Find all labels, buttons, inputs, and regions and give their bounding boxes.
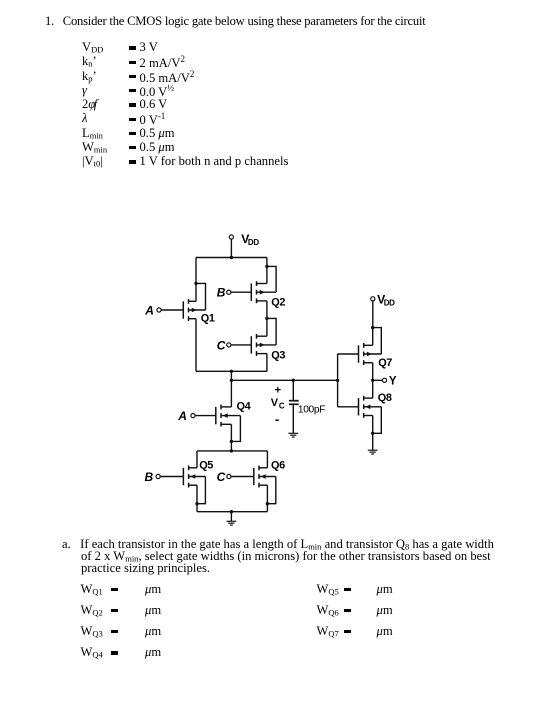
wire: bottom rail bbox=[197, 510, 267, 513]
svg-text:DD: DD bbox=[384, 299, 395, 308]
transistor Q2 (PMOS) bbox=[251, 265, 276, 304]
svg-text:Y: Y bbox=[389, 376, 397, 388]
wire: Q7 drain to output node Y bbox=[371, 363, 374, 382]
wire: Q8 gate bbox=[338, 406, 359, 408]
label VC bbox=[271, 397, 285, 411]
wire: rail to Q6 drain bbox=[266, 451, 268, 468]
transistor Q1 (PMOS) bbox=[183, 282, 205, 321]
ground (capacitor) bbox=[288, 433, 298, 437]
wire: Q7 gate bbox=[338, 353, 359, 355]
question a paragraph bbox=[62, 537, 494, 552]
power terminal VDD (right, inverter) bbox=[371, 297, 375, 328]
label VDD (right) bbox=[377, 292, 395, 307]
wire: Q2 drain to Q3 source bbox=[266, 301, 268, 319]
ground (pull-down network) bbox=[227, 521, 237, 525]
svg-text:DD: DD bbox=[248, 238, 259, 247]
wire: rail to ground bbox=[230, 512, 232, 521]
svg-text:+: + bbox=[275, 385, 281, 397]
svg-text:B: B bbox=[217, 286, 226, 300]
input terminal B (Q5 gate) bbox=[156, 474, 183, 478]
wire: capacitor to ground bbox=[292, 405, 294, 433]
svg-text:A: A bbox=[177, 409, 186, 423]
wire: node Y to Q8 drain bbox=[372, 380, 374, 398]
input terminal B (Q2 gate) bbox=[227, 290, 252, 294]
svg-text:Q3: Q3 bbox=[271, 349, 285, 361]
svg-text:C: C bbox=[217, 470, 226, 484]
wire: Q8 source to ground bbox=[372, 433, 374, 449]
input terminal C (Q6 gate) bbox=[227, 474, 254, 478]
node X wire (to cap and inverter input) bbox=[230, 379, 340, 382]
wire: node X to capacitor bbox=[292, 380, 294, 400]
wire: VDD top rail bbox=[196, 256, 267, 259]
transistor Q7 (PMOS) bbox=[359, 326, 382, 365]
svg-text:C: C bbox=[217, 338, 226, 352]
transistor Q4 (NMOS) bbox=[216, 405, 241, 443]
wire: Q6 source down bbox=[266, 504, 268, 512]
svg-text:Q2: Q2 bbox=[271, 297, 285, 309]
svg-text:-: - bbox=[275, 411, 279, 426]
wire: rail to Q1 source bbox=[195, 258, 197, 284]
label VDD (top) bbox=[241, 232, 259, 247]
svg-text:100pF: 100pF bbox=[298, 405, 325, 416]
transistor Q6 (NMOS) bbox=[254, 466, 276, 506]
wire: Q5 source down bbox=[196, 504, 198, 512]
wire: Q1 drain down bbox=[195, 319, 197, 372]
transistor Q5 (NMOS) bbox=[183, 466, 205, 506]
wire: pull-up output rail bbox=[196, 370, 267, 373]
wire: rail to Q5 drain bbox=[196, 451, 198, 468]
svg-text:V: V bbox=[271, 397, 279, 409]
svg-text:Q6: Q6 bbox=[271, 460, 285, 472]
capacitor C1 100pF bbox=[289, 401, 299, 405]
wire: Q4 source to parallel rail bbox=[230, 441, 233, 452]
svg-text:Q5: Q5 bbox=[199, 460, 213, 472]
svg-text:B: B bbox=[145, 470, 154, 484]
input terminal C (Q3 gate) bbox=[227, 343, 252, 347]
svg-text:C: C bbox=[279, 402, 285, 411]
wire: rail to Q2 source bbox=[266, 258, 268, 267]
wire: Q5/Q6 top rail bbox=[197, 450, 267, 452]
wire: Q3 drain down bbox=[266, 354, 268, 372]
wire: rail to node X bbox=[230, 371, 232, 380]
power terminal VDD (top, gate supply) bbox=[229, 235, 233, 258]
ground (inverter) bbox=[368, 450, 378, 454]
transistor Q3 (PMOS) bbox=[251, 317, 276, 356]
svg-text:Q7: Q7 bbox=[378, 357, 392, 369]
svg-text:Q1: Q1 bbox=[201, 312, 215, 324]
input terminal A (Q1 gate) bbox=[157, 308, 183, 312]
title line bbox=[45, 14, 426, 29]
parameter list bbox=[82, 40, 103, 55]
output terminal Y bbox=[373, 378, 387, 382]
svg-text:Q4: Q4 bbox=[237, 400, 251, 412]
transistor Q8 (NMOS) bbox=[359, 396, 382, 435]
wire: node X to Q4 drain bbox=[230, 380, 232, 407]
svg-text:Q8: Q8 bbox=[378, 392, 392, 404]
wire: inverter input bus bbox=[337, 354, 339, 407]
input terminal A (Q4 gate) bbox=[191, 414, 216, 418]
svg-text:A: A bbox=[144, 303, 153, 317]
